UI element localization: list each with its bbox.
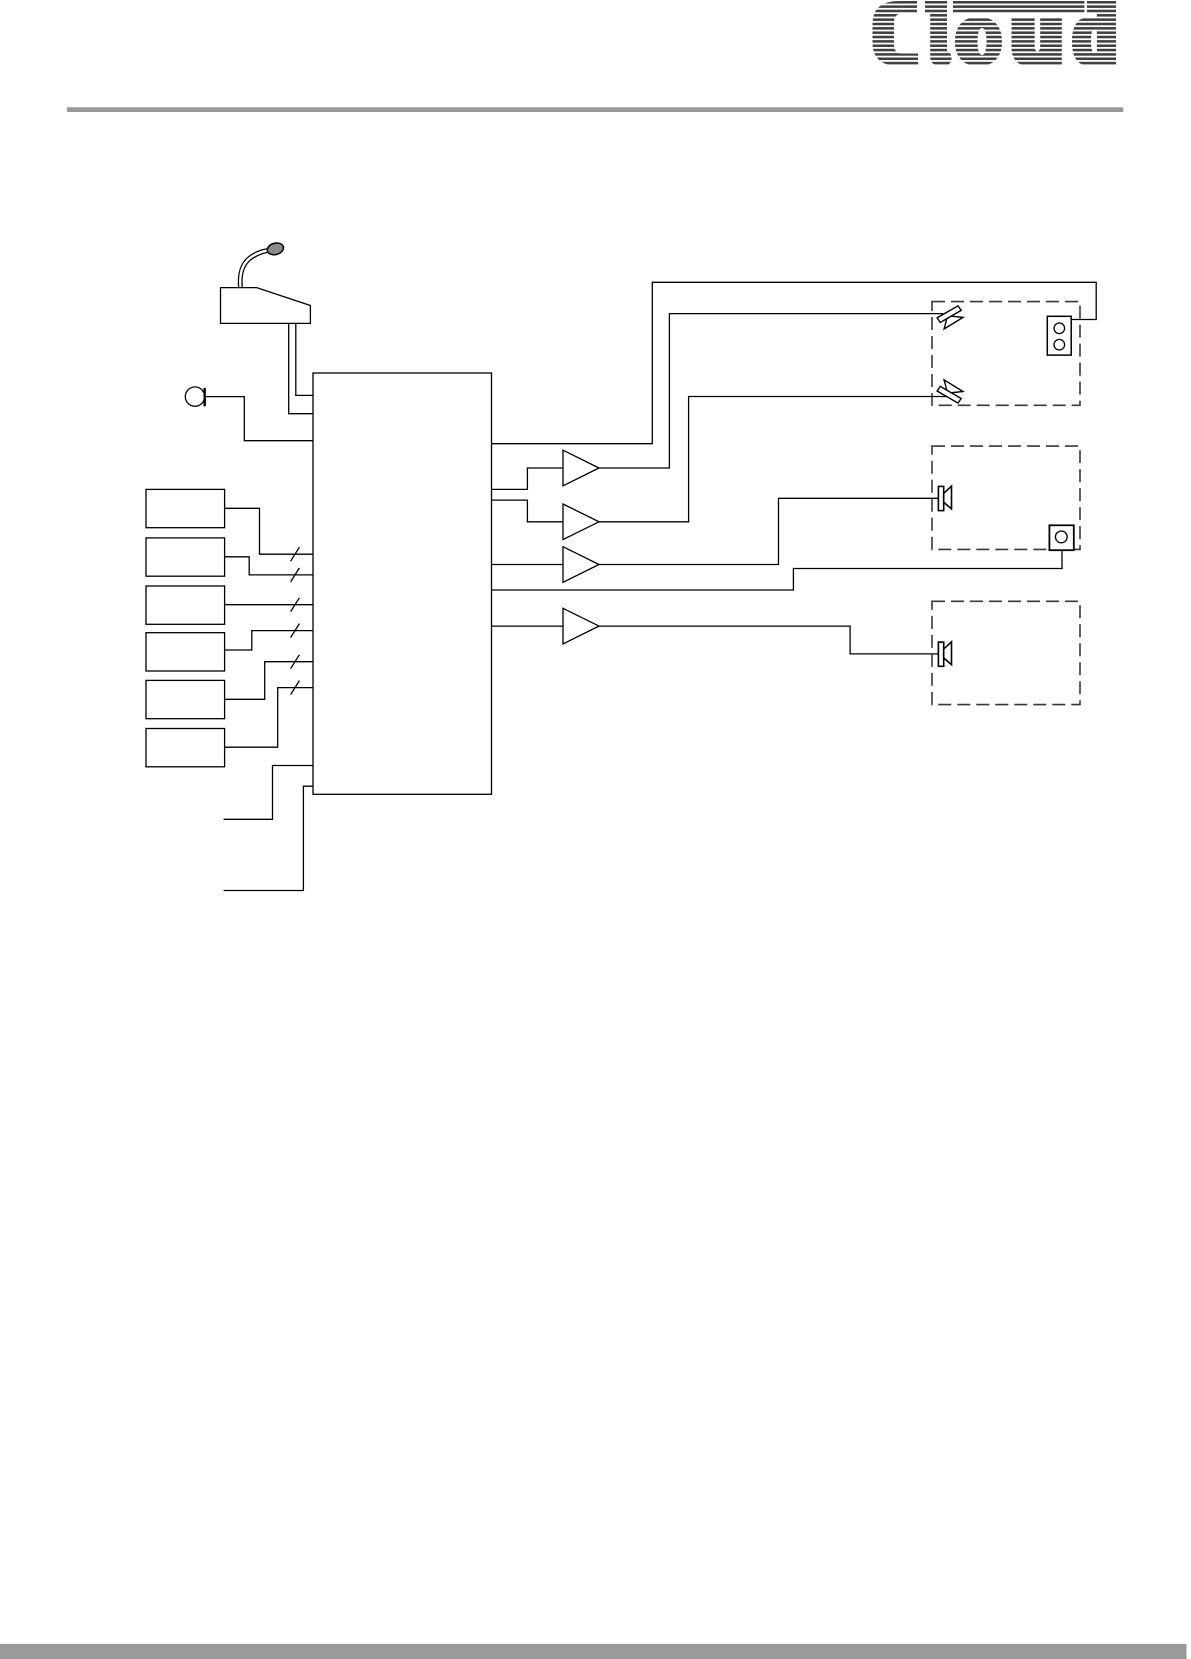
bus slash 3	[291, 598, 300, 612]
bus slash 1	[291, 547, 300, 561]
wire aux input to unit	[224, 766, 313, 820]
amplifier A3	[563, 547, 599, 583]
wire unit to zone1 wall plate	[492, 282, 1097, 443]
bus slash 4	[291, 624, 300, 638]
volume control VC1	[1049, 525, 1073, 550]
wire unit to zone2 volume control VC1	[492, 550, 1063, 590]
bus slash 6	[291, 681, 300, 695]
microphone MIC1 body	[185, 387, 204, 406]
Cloud logo (striped lettering)	[870, 1, 1118, 64]
wire unit to amp A3	[492, 564, 564, 566]
amplifier A1	[563, 450, 599, 486]
wire source 3 to unit	[225, 604, 313, 606]
wire paging mic B to unit	[289, 323, 313, 413]
central mixer unit U1	[313, 373, 492, 794]
zone 1 boundary	[932, 302, 1080, 406]
wire source 6 to unit	[225, 688, 313, 748]
source box 6	[146, 729, 225, 767]
wall plate socket 1	[1054, 323, 1065, 334]
wire unit to amp A2	[492, 500, 564, 522]
wire unit to amp A1	[492, 468, 564, 489]
zone 3 boundary	[932, 601, 1080, 704]
wire amp A4 to speaker LS4	[599, 626, 938, 654]
zone 2 boundary	[932, 446, 1080, 549]
wall plate socket 2	[1054, 339, 1065, 350]
wire amp A1 to horn LS1	[599, 314, 943, 468]
source box 4	[146, 633, 225, 671]
source box 2	[146, 538, 225, 576]
wire paging mic A to unit	[296, 323, 313, 395]
wire unit to remote	[224, 786, 313, 890]
speaker LS4 magnet	[938, 642, 943, 666]
horn loudspeaker LS1	[937, 306, 963, 329]
wire amp A2 to horn LS2	[599, 397, 950, 522]
wire source 1 to unit	[225, 508, 313, 554]
microphone capsule head	[266, 241, 285, 256]
wire unit to amp A4	[492, 625, 564, 627]
speaker LS3 magnet	[938, 486, 943, 510]
bus slash 2	[291, 568, 300, 582]
speaker LS4 cone	[944, 642, 952, 665]
source box 3	[146, 586, 225, 624]
paging microphone base	[221, 288, 311, 324]
wire amp A3 to speaker LS3	[599, 498, 938, 564]
source box 1	[146, 489, 225, 527]
wire source 2 to unit	[225, 557, 313, 575]
header rule	[67, 107, 1123, 112]
wire source 5 to unit	[225, 662, 313, 700]
speaker LS3 cone	[944, 486, 952, 509]
volume control VC1 knob	[1055, 531, 1067, 543]
footer bar	[0, 1644, 1187, 1659]
horn loudspeaker LS2	[937, 380, 963, 403]
wire source 4 to unit	[225, 631, 313, 650]
amplifier A4	[563, 608, 599, 644]
wire MIC1 to unit	[206, 397, 313, 441]
zone1 wall plate	[1047, 316, 1071, 355]
amplifier A2	[563, 504, 599, 540]
bus slash 5	[291, 655, 300, 669]
gooseneck inner line	[242, 252, 268, 287]
microphone MIC1 grille bar	[203, 388, 205, 406]
source box 5	[146, 680, 225, 718]
gooseneck outer line	[238, 249, 267, 288]
